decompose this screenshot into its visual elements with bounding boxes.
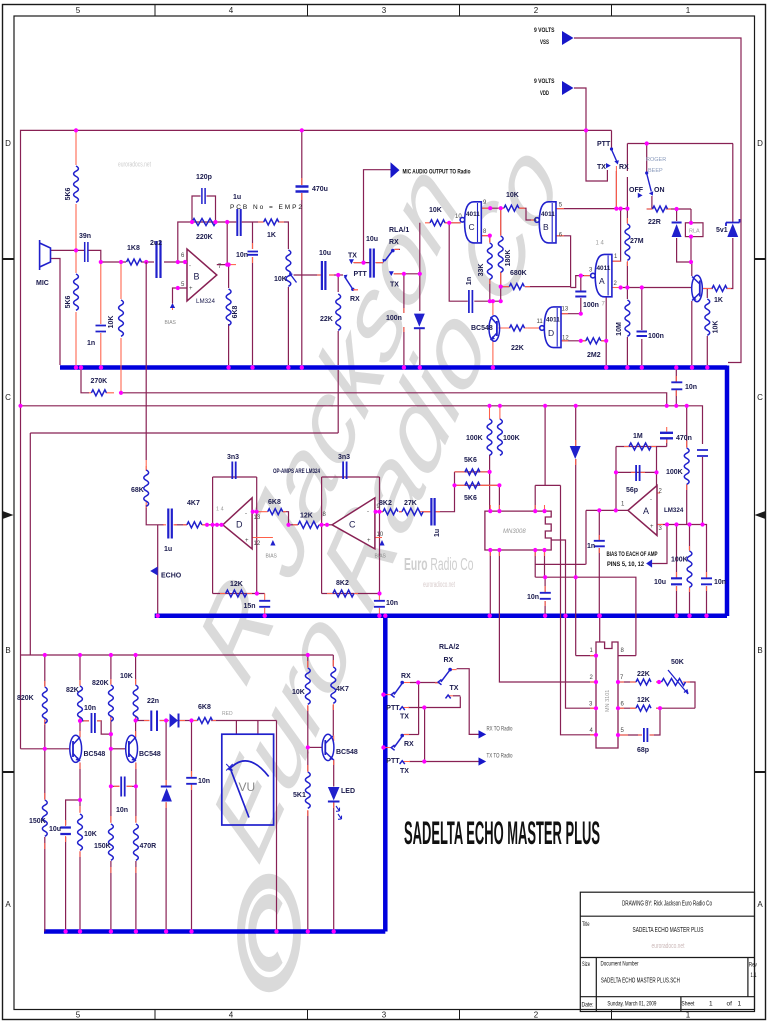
svg-text:10n: 10n (84, 705, 96, 712)
svg-text:10: 10 (377, 532, 384, 538)
wire 12K6 to opamp C (319, 524, 332, 526)
stub 4K7 leads (183, 524, 206, 526)
relay RLA box (685, 223, 703, 237)
svg-text:A: A (599, 276, 605, 286)
wire 10u4 riser (676, 525, 678, 614)
svg-text:BC548: BC548 (471, 325, 493, 332)
svg-text:10K: 10K (120, 673, 133, 680)
arrow 9V VSS (562, 31, 574, 45)
wire pot bottom to bus (287, 287, 289, 365)
wire zener top (732, 144, 734, 223)
svg-text:DRAWING BY: Rick Jackson Euro: DRAWING BY: Rick Jackson Euro Radio Co (622, 901, 712, 908)
op-amp C LM324 (332, 498, 375, 549)
resistor 22R (653, 206, 668, 212)
svg-text:euroradoco.net: euroradoco.net (652, 943, 685, 950)
diode D2 (after 100n3) (414, 314, 425, 327)
svg-text:1K8: 1K8 (127, 245, 140, 252)
resistor 68K (144, 470, 149, 506)
svg-text:33K: 33K (478, 264, 485, 277)
wire vdd riser (574, 88, 586, 130)
svg-text:10n: 10n (527, 594, 539, 601)
wire D loop left vertical (212, 477, 214, 594)
svg-text:5K6: 5K6 (65, 187, 72, 200)
arrow 9V VDD (562, 81, 574, 95)
wire 5K1 branch (307, 747, 309, 931)
capacitor 10n2b (121, 777, 125, 797)
wire 2u2 to opamp B pin6 (164, 261, 187, 263)
stub led bottom (333, 802, 335, 808)
wire rla2 rx contact to arrow (457, 669, 479, 735)
diode D3 (relay clamp) (672, 224, 682, 237)
stub 10n7 leads (378, 594, 380, 614)
svg-text:4K7: 4K7 (187, 500, 200, 507)
resistor 8K2b (383, 509, 398, 515)
stub gateD pin13 (560, 313, 568, 315)
stub rx contact lead (395, 248, 400, 250)
resistor 1K5 (712, 286, 727, 292)
wire chip pin 490 to bus (489, 550, 491, 614)
svg-text:euroradioco.net: euroradioco.net (423, 580, 455, 589)
VU meter box (222, 734, 274, 825)
wire D pin13 vertical (256, 477, 258, 594)
stub 22K2 leads (498, 327, 527, 329)
svg-text:8K2: 8K2 (379, 500, 392, 507)
stub 10K1 (120, 262, 122, 391)
resistor 33K (487, 243, 492, 279)
stub C pin9 (375, 511, 380, 513)
svg-text:1: 1 (738, 1001, 742, 1008)
stub 6K8d leads (192, 720, 217, 722)
wire pot wiper to 10u (294, 274, 321, 276)
svg-text:10: 10 (455, 214, 462, 220)
op-amp D LM324 (223, 498, 252, 549)
stub 1K leads (258, 221, 284, 223)
stub gateA pin1 (612, 260, 621, 262)
svg-text:B: B (5, 646, 10, 655)
stub tx arrow lead (394, 273, 404, 275)
capacitor 470n plates (660, 433, 673, 439)
resistor pot 10K (286, 250, 291, 286)
stub 10K2 leads (498, 207, 525, 209)
stub 22K3 leads (630, 681, 662, 683)
wire 33K pin8 (482, 236, 490, 242)
svg-text:9 VOLTS: 9 VOLTS (534, 27, 555, 34)
wire 2M2 to pin7 riser (601, 297, 606, 365)
wire 470R branch (135, 786, 137, 931)
wire 10u to switch (329, 274, 343, 276)
capacitor 10n7 plates (374, 601, 385, 607)
wire 10n6 riser (544, 577, 546, 613)
resistor 22K3 (636, 679, 651, 685)
stub 10n8 leads (191, 771, 193, 790)
stub rla2 rx dot (451, 669, 457, 671)
svg-text:82K: 82K (66, 687, 79, 694)
wire mn3101 pin6 row (618, 707, 695, 709)
resistor 5K6d (465, 482, 480, 488)
svg-text:+: + (189, 286, 193, 292)
wire 33K bottom (489, 279, 491, 301)
svg-text:9 VOLTS: 9 VOLTS (534, 78, 555, 85)
resistor 100K2 (498, 419, 503, 455)
frame right band ticks (755, 259, 766, 772)
wire mn3101 riser600 (599, 618, 601, 642)
resistor 470R (134, 824, 139, 860)
capacitor 1u4 (431, 498, 434, 526)
svg-text:VSS: VSS (540, 39, 549, 46)
svg-text:4011: 4011 (546, 317, 560, 324)
svg-text:BEEP: BEEP (648, 168, 663, 174)
capacitor 3n3b (343, 462, 347, 480)
stub sw1 tx chevron (402, 707, 409, 709)
wire 1K to pot (278, 222, 288, 249)
stub 15n leads (264, 594, 266, 614)
stub q3 collector emitter (135, 731, 137, 769)
echo jack arrow (150, 567, 158, 576)
svg-text:27M: 27M (630, 238, 644, 245)
stub echo tap (145, 460, 147, 470)
stub rla2 tx chevron (448, 695, 453, 697)
resistor 5K6c (465, 469, 480, 475)
svg-text:-: - (367, 509, 369, 515)
svg-text:Euro Radio Co: Euro Radio Co (404, 554, 474, 574)
svg-text:68K: 68K (131, 487, 144, 494)
bottom line dots (63, 929, 67, 933)
capacitor 10n3 plates (671, 382, 682, 389)
svg-text:3: 3 (382, 6, 387, 15)
svg-text:LM324: LM324 (196, 298, 215, 305)
wire 6K8 bottom to bus (228, 324, 230, 365)
wire 10n1 row (80, 721, 111, 734)
svg-text:12: 12 (254, 541, 261, 547)
svg-text:180K: 180K (505, 250, 512, 267)
svg-text:150K: 150K (29, 818, 46, 825)
switch PTT/TX/RX (top right) (606, 147, 619, 168)
svg-text:4011: 4011 (466, 211, 480, 218)
wire C loop left vertical (321, 477, 323, 594)
svg-text:D: D (548, 328, 554, 338)
svg-text:10K: 10K (292, 689, 305, 696)
wire 50K right loop (688, 682, 696, 708)
stub 1M leads (624, 446, 656, 448)
svg-text:100K: 100K (466, 435, 483, 442)
svg-text:5K1: 5K1 (293, 792, 306, 799)
wire mic bottom to bus (51, 259, 61, 366)
resistor 270K (91, 390, 106, 396)
bus dots middle (156, 614, 160, 618)
wire mic output arrow feed (364, 170, 391, 261)
stub q6 leads (333, 736, 335, 766)
stub gateA pin2 (612, 287, 623, 289)
capacitor 100n2 plates (575, 292, 586, 297)
svg-text:10u: 10u (319, 250, 331, 257)
wire gateD pin12 row (560, 340, 585, 342)
wire gateB pin6 (556, 236, 570, 288)
svg-text:15n: 15n (244, 603, 256, 610)
stub 100K1 lead (489, 406, 491, 419)
svg-text:1n: 1n (587, 543, 595, 550)
svg-text:12: 12 (562, 336, 569, 342)
capacitor 10u1 (322, 261, 326, 290)
stub D pin12 (252, 537, 273, 539)
svg-text:B: B (543, 222, 549, 232)
transistor Q4 BC548 (near gate D) (489, 316, 500, 342)
switch sw1 PTT (upper left of cluster) (391, 681, 405, 710)
svg-text:OFF: OFF (629, 187, 644, 194)
capacitor 10u3 plates (60, 828, 71, 835)
bus riser bottom middle (383, 616, 388, 932)
wire chip pin 535 down wireA (535, 550, 586, 577)
stub gateA pin3 (584, 275, 591, 277)
wire 1u3 to 4K7 (175, 524, 187, 526)
wire emitter1 to 10u3 (66, 763, 80, 826)
capacitor 1n1 plates (96, 326, 107, 332)
wire line3 left rail down (29, 433, 31, 655)
wire 1u to 1K (242, 221, 264, 223)
stub 100K3 leads (686, 441, 688, 490)
wire 22K3 to 50K (656, 681, 662, 683)
wire vss rail (574, 38, 741, 363)
svg-text:RX: RX (389, 239, 399, 246)
capacitor 22n (151, 711, 157, 732)
nand gate C 4011 (460, 202, 481, 243)
svg-text:BC548: BC548 (84, 751, 106, 758)
svg-text:RX: RX (401, 673, 411, 680)
svg-text:4: 4 (229, 1011, 234, 1020)
bus middle section ground (155, 614, 727, 619)
svg-text:5K6: 5K6 (464, 495, 477, 502)
svg-text:BIAS: BIAS (165, 320, 177, 326)
capacitor 15n plates (259, 601, 270, 607)
stub 470n leads (666, 427, 668, 443)
svg-text:56p: 56p (626, 487, 638, 494)
stub 27K leads (420, 511, 440, 513)
wire 68K to 1u3 (146, 505, 164, 525)
svg-text:5v1: 5v1 (716, 227, 728, 234)
stub 6K8c leads (257, 511, 286, 513)
wire opamp B pin5 (173, 288, 188, 303)
wire gateD pin13 (560, 313, 580, 315)
svg-text:12K: 12K (230, 581, 243, 588)
stub 1u3 leads (163, 524, 177, 526)
svg-text:50K: 50K (671, 659, 684, 666)
svg-text:10n: 10n (386, 600, 398, 607)
svg-text:10K: 10K (274, 276, 287, 283)
frame top ruler ticks (155, 5, 612, 17)
svg-text:VDD: VDD (540, 90, 549, 97)
wire rx switch riser (615, 171, 617, 209)
svg-text:B: B (194, 272, 200, 282)
svg-text:680K: 680K (510, 270, 527, 277)
svg-text:1n: 1n (466, 277, 473, 285)
capacitor 56p (636, 465, 640, 481)
microphone MIC symbol (40, 240, 51, 270)
resistor 1M (629, 443, 651, 450)
wire 10K2 to gateB (519, 208, 539, 220)
resistor 10K8 (305, 668, 310, 704)
resistor 12K7 (636, 705, 651, 711)
wire gateA pin3 node (581, 275, 591, 277)
stub 82K leads (79, 680, 81, 723)
junction dots bottom section (43, 653, 427, 934)
svg-text:A: A (643, 506, 649, 516)
resistor 2M2 (586, 338, 601, 344)
svg-text:470n: 470n (676, 435, 692, 442)
resistor 100K1 (487, 419, 492, 455)
resistor 6K8c (268, 509, 283, 515)
svg-text:22n: 22n (147, 698, 159, 705)
LED (328, 787, 340, 801)
svg-text:39n: 39n (79, 233, 91, 240)
svg-text:-: - (650, 497, 652, 503)
resistor 6K8b (226, 289, 231, 325)
wire roger box top (627, 143, 733, 145)
stub 22n leads (144, 720, 165, 722)
resistor 10K6 (133, 685, 138, 721)
wire 150K1 branch (44, 749, 46, 932)
capacitor 470u plates (296, 187, 309, 192)
wire base row1 (21, 748, 70, 750)
svg-text:C: C (5, 393, 11, 402)
wire C pin9 vertical (379, 477, 381, 594)
stub 10n3 leads (675, 376, 677, 396)
wire 100K4 riser (689, 525, 691, 614)
wire 10K8 branch (307, 655, 309, 747)
labels bottom section (17, 644, 513, 850)
svg-text:RX: RX (350, 296, 360, 303)
resistor 10K2 (504, 205, 519, 211)
stub 12K5 leads (220, 593, 252, 595)
wire V2 drop (424, 708, 426, 762)
stub gateB pin6 (556, 235, 564, 237)
transistor Q6 BC548 (322, 734, 334, 760)
resistor 12K5 (226, 590, 247, 597)
svg-text:4011: 4011 (541, 211, 555, 218)
wire mn3101 pin1 row (576, 655, 596, 657)
capacitor 10n5 plates (701, 578, 712, 584)
svg-text:RX: RX (619, 164, 629, 171)
stub sw2 rx dot (403, 734, 409, 736)
wire B row (535, 577, 636, 655)
wire diode2 drop (419, 274, 421, 365)
resistor 1K8 (127, 259, 142, 265)
svg-text:5K6: 5K6 (65, 295, 72, 308)
op-amp B LM324 (187, 249, 217, 301)
stub 56p leads (631, 471, 645, 473)
svg-text:5: 5 (76, 1011, 81, 1020)
wire 5K6 row1 (455, 471, 490, 473)
svg-text:euroradocs.net: euroradocs.net (118, 160, 152, 169)
junction dots middle section (18, 365, 708, 737)
wire vdd to tx contact (586, 130, 607, 181)
bus top section ground (60, 365, 727, 370)
wire diode5 riser (575, 406, 577, 656)
resistor 820K1 (42, 687, 47, 723)
resistor 150K1 (42, 800, 47, 836)
wire mn3101 pin5 row (618, 708, 660, 735)
wire 820K1 branch (44, 655, 46, 749)
resistor 27K (402, 508, 423, 515)
wire diode7 branch (165, 721, 167, 932)
wire 150K2 branch (110, 786, 112, 931)
svg-text:RLA/2: RLA/2 (439, 644, 459, 651)
svg-text:LM324: LM324 (664, 507, 684, 514)
stub 10K4 leads (425, 222, 449, 224)
svg-text:MN3008: MN3008 (503, 529, 526, 535)
wire rla1 rx stub (395, 248, 401, 250)
stub 10K8 leads (307, 661, 309, 711)
stub 68p leads (638, 734, 654, 736)
svg-text:PTT: PTT (386, 705, 400, 712)
wire 1n4 row to 33K (474, 300, 500, 302)
resistor 8K2c (333, 590, 354, 597)
stub q2 collector emitter (79, 731, 81, 769)
stub 5K6a (75, 130, 77, 250)
wire D 12K loop row (213, 593, 265, 595)
svg-text:PCB No = EMP2: PCB No = EMP2 (230, 204, 302, 211)
wire 27M leads (626, 209, 628, 288)
stub 10n2 leads (252, 243, 254, 263)
stub tx contact (353, 262, 363, 264)
stub 10n2b leads (114, 785, 132, 787)
svg-text:3n3: 3n3 (227, 454, 239, 461)
svg-text:-: - (189, 264, 191, 270)
resistor 22K1 (336, 294, 341, 330)
svg-text:BIAS: BIAS (266, 554, 278, 560)
wire 1M 56p loop (616, 439, 667, 511)
svg-text:220K: 220K (196, 234, 213, 241)
stub 1u1 (236, 221, 242, 223)
wire 470u riser (301, 130, 303, 365)
wire mic top row (51, 249, 85, 251)
svg-text:TX: TX (450, 685, 459, 692)
labels middle section (91, 378, 727, 754)
wire 27K to 1u4 (423, 511, 431, 513)
resistor 10K4 (430, 220, 445, 226)
svg-text:22K: 22K (320, 316, 333, 323)
resistor 10M (625, 300, 630, 336)
svg-text:ROGER: ROGER (646, 157, 666, 163)
wire chip top loop (535, 406, 596, 735)
wire sw1 rx row (410, 682, 439, 684)
svg-text:A: A (5, 900, 11, 909)
svg-text:6K8: 6K8 (232, 305, 239, 318)
resistor 10K7 (78, 814, 83, 850)
frame bottom ruler ticks (155, 1010, 612, 1020)
top section blue components (74, 166, 727, 344)
bus riser right (725, 366, 730, 617)
stub gateD out11 (528, 327, 540, 329)
svg-text:BC548: BC548 (336, 749, 358, 756)
svg-text:100n: 100n (648, 333, 664, 340)
wire 39n to signal row (89, 250, 127, 262)
svg-text:12K: 12K (637, 697, 650, 704)
svg-text:Sheet: Sheet (681, 1001, 694, 1008)
wire base row3 (308, 746, 323, 748)
svg-text:1u: 1u (233, 194, 241, 201)
wire 180K bottom (500, 272, 502, 301)
svg-text:4: 4 (229, 6, 234, 15)
wire gateA pin1 (612, 209, 621, 262)
svg-text:13: 13 (562, 307, 569, 313)
svg-text:+: + (650, 524, 654, 530)
wire sw1 tx row (408, 697, 460, 708)
diode D5 (middle, near 1M) (570, 446, 581, 459)
stub 8K2c leads (327, 593, 358, 595)
resistor 100K3 (684, 448, 689, 484)
diode D7 (vertical) (161, 786, 172, 788)
svg-text:BC548: BC548 (139, 751, 161, 758)
wire 22n row (136, 720, 169, 722)
